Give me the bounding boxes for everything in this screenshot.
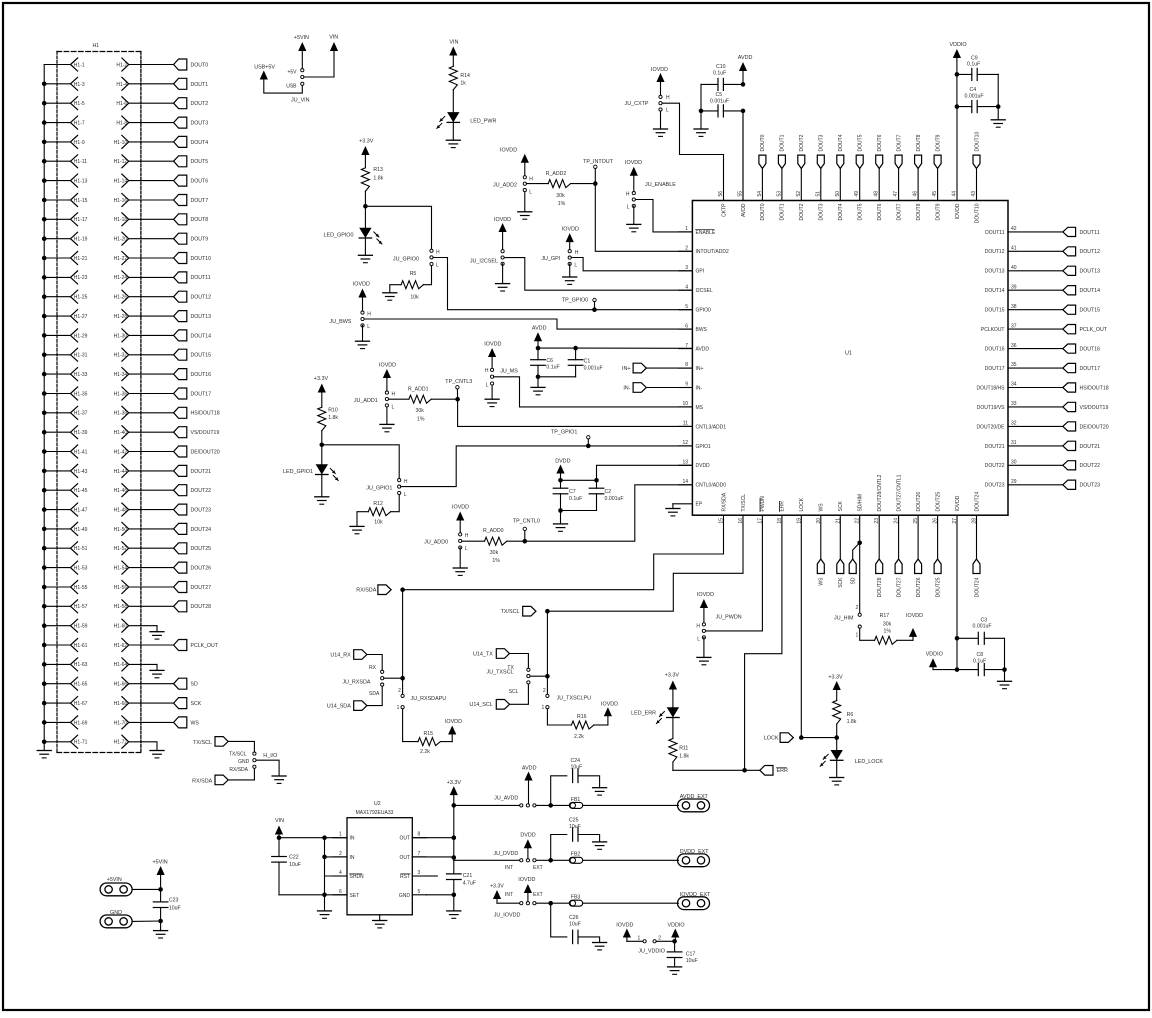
svg-text:2.2k: 2.2k	[574, 734, 584, 740]
svg-text:H1-41: H1-41	[74, 449, 88, 455]
svg-text:OUT: OUT	[399, 836, 410, 842]
svg-text:H1-70: H1-70	[114, 720, 128, 726]
svg-text:1: 1	[638, 936, 641, 942]
svg-text:32: 32	[1011, 421, 1017, 427]
svg-text:R17: R17	[880, 613, 890, 619]
svg-text:WS: WS	[819, 577, 825, 586]
svg-text:0.1uF: 0.1uF	[713, 70, 726, 76]
svg-text:LED_GPIO0: LED_GPIO0	[324, 233, 354, 239]
svg-text:H1-32: H1-32	[114, 353, 128, 359]
svg-text:DOUT6: DOUT6	[877, 203, 883, 220]
svg-text:SCL: SCL	[509, 689, 519, 695]
svg-text:GPIO1: GPIO1	[696, 444, 712, 450]
svg-text:H1-35: H1-35	[74, 391, 88, 397]
svg-text:IOVDD: IOVDD	[562, 227, 579, 233]
svg-text:2: 2	[856, 605, 859, 611]
svg-text:H1-6: H1-6	[116, 101, 127, 107]
svg-text:U1: U1	[845, 351, 852, 357]
svg-text:11: 11	[683, 421, 688, 427]
svg-text:H1-29: H1-29	[74, 333, 88, 339]
svg-text:H1-57: H1-57	[74, 604, 88, 610]
svg-text:JU_BWS: JU_BWS	[330, 319, 352, 325]
svg-text:30k: 30k	[556, 193, 565, 199]
svg-text:IOVDD: IOVDD	[651, 67, 668, 73]
svg-text:7: 7	[418, 851, 421, 857]
svg-text:38: 38	[1011, 304, 1017, 310]
svg-text:H1: H1	[93, 43, 100, 49]
svg-text:H1-11: H1-11	[74, 159, 87, 165]
svg-text:H1-58: H1-58	[114, 604, 128, 610]
svg-text:DOUT15: DOUT15	[1080, 308, 1101, 314]
svg-text:1: 1	[397, 705, 400, 711]
svg-text:C1: C1	[584, 359, 591, 365]
svg-text:L: L	[627, 204, 630, 210]
svg-text:2: 2	[685, 246, 688, 252]
svg-text:DOUT21: DOUT21	[985, 444, 1005, 450]
svg-text:H1-33: H1-33	[74, 372, 88, 378]
svg-text:SCK: SCK	[191, 701, 202, 707]
svg-text:FB1: FB1	[571, 797, 581, 803]
svg-text:DOUT22: DOUT22	[985, 463, 1005, 469]
svg-text:36: 36	[1011, 343, 1017, 349]
svg-text:VS/DOUT19: VS/DOUT19	[1080, 405, 1109, 411]
svg-text:INT: INT	[505, 892, 513, 898]
svg-text:RX/SDA: RX/SDA	[229, 767, 248, 773]
svg-text:GPIO0: GPIO0	[696, 308, 712, 314]
svg-text:H1-67: H1-67	[74, 701, 88, 707]
svg-text:9: 9	[685, 382, 688, 388]
svg-text:DOUT26: DOUT26	[191, 566, 212, 572]
svg-text:IOVDD: IOVDD	[697, 592, 714, 598]
svg-text:DOUT22: DOUT22	[191, 488, 212, 494]
svg-text:DOUT5: DOUT5	[858, 134, 864, 151]
svg-text:EXT: EXT	[533, 865, 543, 871]
svg-text:HS/DOUT18: HS/DOUT18	[191, 411, 220, 417]
svg-text:GND: GND	[238, 759, 250, 765]
svg-text:42: 42	[1011, 226, 1017, 232]
svg-text:1.8k: 1.8k	[328, 415, 338, 421]
svg-text:IOVDD: IOVDD	[353, 282, 370, 288]
svg-text:H: H	[485, 368, 489, 374]
svg-text:DOUT23: DOUT23	[191, 507, 212, 513]
svg-text:H1-18: H1-18	[114, 217, 128, 223]
svg-text:DOUT8: DOUT8	[916, 203, 922, 220]
svg-text:WS: WS	[819, 503, 825, 512]
svg-text:H1-55: H1-55	[74, 585, 88, 591]
svg-text:IN: IN	[350, 836, 355, 842]
svg-text:JU_GPI: JU_GPI	[541, 256, 560, 262]
svg-text:29: 29	[1011, 479, 1017, 485]
svg-text:CNTL3/ADD1: CNTL3/ADD1	[696, 424, 727, 430]
svg-text:DOUT7: DOUT7	[191, 198, 209, 204]
svg-text:U14_RX: U14_RX	[330, 652, 351, 658]
svg-text:1.8k: 1.8k	[847, 719, 857, 725]
svg-text:IN: IN	[350, 855, 355, 861]
svg-text:DOUT16: DOUT16	[191, 372, 212, 378]
svg-text:JU_MS: JU_MS	[500, 369, 518, 375]
svg-text:DOUT13: DOUT13	[191, 314, 212, 320]
svg-text:IOVDD_EXT: IOVDD_EXT	[680, 892, 711, 898]
svg-text:DOUT17: DOUT17	[985, 366, 1005, 372]
svg-text:C10: C10	[716, 64, 726, 70]
svg-text:H1-26: H1-26	[114, 295, 128, 301]
svg-text:DOUT12: DOUT12	[191, 295, 212, 301]
svg-text:RST: RST	[400, 874, 410, 880]
svg-text:H1-71: H1-71	[74, 740, 88, 746]
svg-text:H1-56: H1-56	[114, 585, 128, 591]
svg-text:DOUT12: DOUT12	[1080, 249, 1101, 255]
svg-text:JU_DVDD: JU_DVDD	[493, 851, 518, 857]
svg-text:DOUT1: DOUT1	[780, 203, 786, 220]
svg-text:CNTL0/ADD0: CNTL0/ADD0	[696, 483, 727, 489]
svg-text:IOVDD: IOVDD	[452, 505, 469, 511]
svg-text:H1-65: H1-65	[74, 682, 88, 688]
svg-text:PCLKOUT: PCLKOUT	[981, 327, 1005, 333]
svg-text:JU_I2CSEL: JU_I2CSEL	[470, 258, 498, 264]
svg-text:DOUT14: DOUT14	[1080, 288, 1101, 294]
svg-text:LED_PWR: LED_PWR	[470, 118, 496, 124]
svg-text:1: 1	[685, 226, 688, 232]
svg-text:DOUT14: DOUT14	[191, 333, 212, 339]
svg-text:TP_GPIO0: TP_GPIO0	[562, 298, 588, 304]
svg-text:TP_CNTL0: TP_CNTL0	[513, 519, 540, 525]
svg-text:U14_TX: U14_TX	[473, 651, 493, 657]
svg-text:L: L	[574, 263, 577, 269]
svg-text:4: 4	[339, 870, 342, 876]
svg-text:R15: R15	[424, 731, 434, 737]
svg-text:JU_ENABLE: JU_ENABLE	[645, 182, 676, 188]
svg-text:INT: INT	[505, 865, 513, 871]
svg-text:R14: R14	[460, 73, 470, 79]
svg-text:DOUT6: DOUT6	[877, 134, 883, 151]
svg-text:H1-19: H1-19	[74, 237, 88, 243]
svg-text:IOVDD: IOVDD	[445, 719, 462, 725]
svg-text:H1-9: H1-9	[74, 140, 85, 146]
svg-text:PCLK_OUT: PCLK_OUT	[191, 643, 219, 649]
svg-text:C7: C7	[569, 489, 576, 495]
svg-text:DOUT10: DOUT10	[191, 256, 212, 262]
svg-text:H: H	[436, 249, 440, 255]
svg-text:0.001uF: 0.001uF	[710, 98, 729, 104]
svg-text:SD: SD	[851, 577, 857, 584]
svg-text:+3.3V: +3.3V	[828, 675, 843, 681]
svg-text:+5VIN: +5VIN	[107, 877, 122, 883]
svg-text:IOVDD: IOVDD	[625, 160, 642, 166]
svg-text:DOUT25: DOUT25	[191, 546, 212, 552]
svg-text:DOUT26: DOUT26	[916, 492, 922, 512]
svg-text:DOUT4: DOUT4	[191, 140, 209, 146]
svg-text:+3.3V: +3.3V	[314, 376, 329, 382]
svg-text:DOUT10: DOUT10	[974, 203, 980, 223]
svg-text:IOVDD: IOVDD	[616, 923, 633, 929]
svg-text:DOUT28/CNTL2: DOUT28/CNTL2	[877, 474, 883, 511]
svg-text:USB+5V: USB+5V	[254, 64, 275, 70]
svg-text:DOUT11: DOUT11	[191, 275, 211, 281]
svg-text:1.8k: 1.8k	[679, 753, 689, 759]
svg-text:H1-48: H1-48	[114, 507, 128, 513]
svg-text:DOUT18/HS: DOUT18/HS	[976, 385, 1005, 391]
svg-text:H1-38: H1-38	[114, 411, 128, 417]
svg-text:DOUT15: DOUT15	[191, 353, 212, 359]
svg-text:I2CSEL: I2CSEL	[696, 288, 713, 294]
svg-text:R5: R5	[410, 271, 417, 277]
svg-text:VDDIO: VDDIO	[950, 42, 967, 48]
svg-text:OUT: OUT	[399, 855, 410, 861]
svg-text:H1-24: H1-24	[114, 275, 128, 281]
svg-text:H_I/O: H_I/O	[263, 753, 277, 759]
svg-text:10k: 10k	[410, 294, 419, 300]
svg-text:41: 41	[1011, 246, 1017, 252]
svg-text:R6: R6	[847, 712, 854, 718]
svg-text:1.8k: 1.8k	[373, 176, 383, 182]
svg-text:DOUT4: DOUT4	[838, 134, 844, 151]
svg-text:+3.3V: +3.3V	[490, 884, 504, 890]
svg-text:ERR: ERR	[777, 768, 788, 774]
svg-text:H1-53: H1-53	[74, 566, 88, 572]
svg-text:DOUT2: DOUT2	[799, 134, 805, 151]
svg-text:DOUT20/DE: DOUT20/DE	[976, 424, 1005, 430]
svg-text:DOUT26: DOUT26	[916, 577, 922, 597]
svg-text:H1-17: H1-17	[74, 217, 88, 223]
svg-text:H1-27: H1-27	[74, 314, 88, 320]
svg-text:H1-46: H1-46	[114, 488, 128, 494]
svg-text:H1-10: H1-10	[114, 140, 128, 146]
svg-text:35: 35	[1011, 362, 1017, 368]
svg-text:AVDD: AVDD	[741, 203, 747, 217]
svg-text:IOVDD: IOVDD	[518, 877, 535, 883]
svg-text:SCK: SCK	[838, 577, 844, 588]
svg-text:H1-20: H1-20	[114, 237, 128, 243]
svg-text:H1-15: H1-15	[74, 198, 88, 204]
svg-text:H1-72: H1-72	[114, 740, 128, 746]
svg-text:2.2k: 2.2k	[420, 749, 430, 755]
svg-text:H1-43: H1-43	[74, 469, 88, 475]
svg-text:+5VIN: +5VIN	[294, 35, 309, 41]
svg-text:CKTP: CKTP	[721, 203, 727, 217]
svg-text:DVDD: DVDD	[696, 463, 711, 469]
svg-text:31: 31	[1011, 440, 1017, 446]
svg-text:8: 8	[685, 362, 688, 368]
svg-text:GND: GND	[110, 910, 122, 916]
svg-text:JU_HIM: JU_HIM	[834, 615, 854, 621]
svg-text:2: 2	[543, 688, 546, 694]
svg-text:DOUT8: DOUT8	[916, 134, 922, 151]
svg-text:IOVDD: IOVDD	[494, 217, 511, 223]
svg-text:DOUT10: DOUT10	[974, 132, 980, 152]
svg-text:IOVDD: IOVDD	[379, 363, 396, 369]
svg-text:AVDD: AVDD	[522, 766, 537, 772]
svg-text:30k: 30k	[883, 621, 892, 627]
svg-text:L: L	[697, 637, 700, 643]
svg-text:LED_GPIO1: LED_GPIO1	[283, 469, 313, 475]
svg-text:+3.3V: +3.3V	[447, 780, 462, 786]
svg-text:R_ADD0: R_ADD0	[483, 528, 504, 534]
svg-text:1: 1	[542, 705, 545, 711]
svg-text:1%: 1%	[417, 416, 425, 422]
svg-text:SHDN: SHDN	[350, 874, 365, 880]
svg-text:WS: WS	[191, 720, 200, 726]
svg-text:DOUT28: DOUT28	[877, 577, 883, 597]
svg-text:DOUT24: DOUT24	[191, 527, 212, 533]
svg-text:USB: USB	[286, 83, 297, 89]
svg-text:SD/HIM: SD/HIM	[858, 494, 864, 512]
svg-text:H1-25: H1-25	[74, 295, 88, 301]
svg-text:DOUT16: DOUT16	[985, 347, 1005, 353]
svg-text:C21: C21	[463, 873, 473, 879]
svg-text:+5VIN: +5VIN	[153, 860, 168, 866]
svg-text:8: 8	[418, 832, 421, 838]
svg-text:LOCK: LOCK	[764, 736, 779, 742]
svg-text:DOUT4: DOUT4	[838, 203, 844, 220]
svg-text:10: 10	[682, 401, 688, 407]
svg-text:6: 6	[339, 889, 342, 895]
svg-text:H1-51: H1-51	[74, 546, 88, 552]
svg-text:H1-39: H1-39	[74, 430, 88, 436]
svg-text:H1-1: H1-1	[74, 62, 85, 68]
svg-text:H1-4: H1-4	[116, 82, 127, 88]
svg-text:37: 37	[1011, 323, 1017, 329]
svg-text:DOUT25: DOUT25	[935, 577, 941, 597]
svg-text:10k: 10k	[374, 520, 383, 526]
svg-text:U2: U2	[374, 801, 381, 807]
svg-text:H1-23: H1-23	[74, 275, 88, 281]
svg-text:IN-: IN-	[696, 385, 703, 391]
svg-text:0.1uF: 0.1uF	[569, 496, 582, 502]
svg-text:DE/DOUT20: DE/DOUT20	[191, 449, 220, 455]
svg-text:DOUT8: DOUT8	[191, 217, 209, 223]
svg-text:VIN: VIN	[275, 818, 284, 824]
svg-text:H1-60: H1-60	[114, 624, 128, 630]
svg-text:H: H	[529, 177, 533, 183]
svg-text:3: 3	[685, 265, 688, 271]
svg-text:JU_ADD2: JU_ADD2	[493, 183, 517, 189]
svg-text:1: 1	[856, 633, 859, 639]
svg-text:JU_GPIO0: JU_GPIO0	[393, 257, 419, 263]
svg-text:H1-59: H1-59	[74, 624, 88, 630]
svg-text:12: 12	[682, 440, 688, 446]
svg-text:2: 2	[658, 936, 661, 942]
svg-text:INTOUT/ADD2: INTOUT/ADD2	[696, 249, 729, 255]
svg-text:ENABLE: ENABLE	[696, 230, 716, 236]
svg-text:GPI: GPI	[696, 269, 705, 275]
svg-text:H1-16: H1-16	[114, 198, 128, 204]
svg-text:C24: C24	[571, 758, 581, 764]
svg-text:H1-12: H1-12	[114, 159, 128, 165]
svg-text:TP_GPIO1: TP_GPIO1	[551, 430, 577, 436]
svg-text:C9: C9	[971, 55, 978, 61]
svg-text:H1-7: H1-7	[74, 121, 85, 127]
svg-text:DOUT24: DOUT24	[974, 492, 980, 512]
svg-text:H1-2: H1-2	[116, 62, 127, 68]
svg-text:DOUT27/CNTL1: DOUT27/CNTL1	[896, 474, 902, 511]
svg-text:R16: R16	[577, 714, 587, 720]
svg-text:H1-62: H1-62	[114, 643, 128, 649]
svg-text:DOUT5: DOUT5	[858, 203, 864, 220]
svg-text:VIN: VIN	[329, 35, 338, 41]
svg-text:4.7uF: 4.7uF	[463, 881, 476, 887]
svg-text:H1-3: H1-3	[74, 82, 85, 88]
svg-text:0.1uF: 0.1uF	[546, 365, 559, 371]
svg-text:L: L	[404, 492, 407, 498]
svg-text:U14_SCL: U14_SCL	[469, 702, 492, 708]
svg-text:SET: SET	[350, 893, 360, 899]
svg-text:H1-50: H1-50	[114, 527, 128, 533]
svg-text:DOUT24: DOUT24	[974, 577, 980, 597]
svg-text:DOUT17: DOUT17	[1080, 366, 1101, 372]
svg-text:H: H	[404, 479, 408, 485]
svg-text:TX/SCL: TX/SCL	[501, 609, 520, 615]
svg-text:39: 39	[1011, 284, 1017, 290]
svg-text:H1-13: H1-13	[74, 179, 88, 185]
svg-text:JU_VIN: JU_VIN	[291, 98, 310, 104]
svg-text:DOUT1: DOUT1	[780, 134, 786, 151]
svg-text:H1-63: H1-63	[74, 662, 88, 668]
svg-text:L: L	[666, 108, 669, 114]
svg-text:H1-47: H1-47	[74, 507, 88, 513]
svg-text:R11: R11	[679, 746, 688, 752]
svg-text:LED_ERR: LED_ERR	[631, 710, 656, 716]
svg-text:H1-14: H1-14	[114, 179, 128, 185]
svg-text:DOUT3: DOUT3	[191, 121, 209, 127]
svg-text:JU_TXSCLPU: JU_TXSCLPU	[557, 695, 592, 701]
svg-text:H1-37: H1-37	[74, 411, 88, 417]
svg-text:DOUT11: DOUT11	[1080, 230, 1100, 236]
svg-text:IOVDD: IOVDD	[484, 341, 501, 347]
svg-text:1%: 1%	[492, 558, 500, 564]
svg-text:TP_INTOUT: TP_INTOUT	[583, 159, 614, 165]
svg-text:DOUT15: DOUT15	[985, 308, 1005, 314]
svg-text:JU_PWDN: JU_PWDN	[716, 615, 742, 621]
svg-text:14: 14	[682, 479, 688, 485]
svg-text:L: L	[392, 404, 395, 410]
svg-text:H: H	[626, 192, 630, 198]
svg-text:LED_LOCK: LED_LOCK	[855, 759, 884, 765]
svg-text:JU_GPIO1: JU_GPIO1	[366, 485, 392, 491]
svg-text:H1-5: H1-5	[74, 101, 85, 107]
svg-text:VS/DOUT19: VS/DOUT19	[191, 430, 220, 436]
svg-text:JU_VDDIO: JU_VDDIO	[638, 949, 665, 955]
svg-text:DOUT27: DOUT27	[896, 577, 902, 597]
svg-text:BWS: BWS	[696, 327, 708, 333]
svg-text:R_ADD1: R_ADD1	[408, 387, 429, 393]
svg-text:DOUT25: DOUT25	[935, 492, 941, 512]
svg-text:H1-22: H1-22	[114, 256, 128, 262]
svg-text:C2: C2	[605, 489, 612, 495]
svg-text:DOUT16: DOUT16	[1080, 347, 1101, 353]
svg-text:10uF: 10uF	[571, 764, 583, 770]
svg-text:2: 2	[398, 688, 401, 694]
svg-text:SCK: SCK	[838, 501, 844, 512]
svg-text:AVDD_EXT: AVDD_EXT	[680, 794, 709, 800]
svg-text:IOVDD: IOVDD	[906, 613, 923, 619]
svg-text:L: L	[465, 546, 468, 552]
svg-text:DVDD_EXT: DVDD_EXT	[680, 849, 709, 855]
svg-text:C3: C3	[981, 617, 988, 623]
svg-text:H1-66: H1-66	[114, 682, 128, 688]
svg-text:JU_IOVDD: JU_IOVDD	[494, 913, 521, 919]
svg-text:DOUT2: DOUT2	[799, 203, 805, 220]
svg-text:10uF: 10uF	[569, 922, 581, 928]
svg-text:EP: EP	[696, 502, 703, 508]
svg-text:34: 34	[1011, 382, 1017, 388]
svg-text:DOUT17: DOUT17	[191, 391, 212, 397]
svg-text:FB2: FB2	[571, 852, 581, 858]
svg-text:10uF: 10uF	[289, 862, 301, 868]
svg-text:10uF: 10uF	[169, 906, 181, 912]
svg-text:L: L	[529, 189, 532, 195]
svg-text:MAX1792EUA33: MAX1792EUA33	[356, 810, 394, 816]
svg-text:RX/SDA: RX/SDA	[192, 778, 212, 784]
